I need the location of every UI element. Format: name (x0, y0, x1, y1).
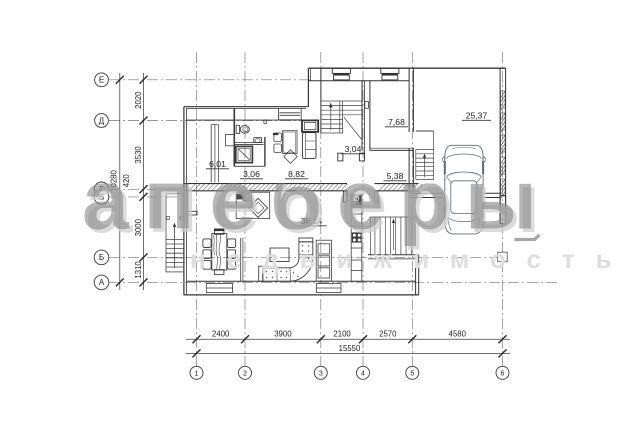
svg-text:4: 4 (361, 370, 365, 377)
svg-text:1310: 1310 (134, 261, 143, 279)
svg-text:5: 5 (410, 370, 414, 377)
svg-text:3: 3 (319, 370, 323, 377)
svg-text:8,82: 8,82 (288, 169, 305, 179)
svg-text:3,06: 3,06 (243, 169, 260, 179)
svg-text:3530: 3530 (134, 146, 143, 164)
svg-text:А: А (99, 278, 105, 287)
svg-text:25,37: 25,37 (466, 111, 488, 121)
svg-text:3,04: 3,04 (345, 144, 362, 154)
svg-text:Е: Е (99, 76, 104, 85)
svg-text:1: 1 (195, 370, 199, 377)
svg-text:7,68: 7,68 (388, 117, 405, 127)
svg-text:2570: 2570 (379, 330, 397, 339)
svg-text:6,01: 6,01 (209, 159, 226, 169)
svg-text:2400: 2400 (212, 330, 230, 339)
svg-text:недвижимость: недвижимость (190, 244, 631, 274)
svg-text:Б: Б (99, 253, 104, 262)
svg-text:3900: 3900 (274, 330, 292, 339)
svg-text:2: 2 (243, 370, 247, 377)
svg-text:4580: 4580 (449, 330, 467, 339)
svg-text:15550: 15550 (339, 344, 361, 353)
svg-text:6: 6 (501, 370, 505, 377)
svg-text:2100: 2100 (333, 330, 351, 339)
svg-text:5,38: 5,38 (387, 171, 404, 181)
svg-text:Д: Д (99, 116, 105, 125)
svg-text:2020: 2020 (134, 91, 143, 109)
